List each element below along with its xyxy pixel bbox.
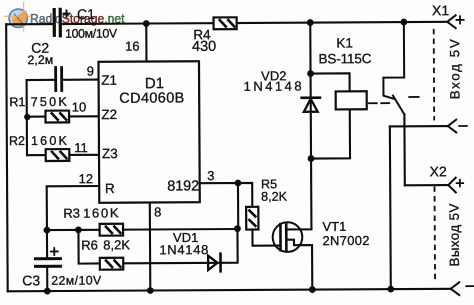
connector X1 plus terminal — [447, 15, 463, 28]
transistor VT1 2N7002 — [273, 222, 303, 252]
svg-text:R: R — [105, 181, 115, 196]
diode VD2 — [302, 98, 320, 112]
node pin16/top — [143, 20, 150, 27]
svg-text:11: 11 — [74, 140, 88, 155]
connector X1 dashed boundary — [433, 29, 436, 120]
node coil bottom/drain — [308, 155, 315, 162]
resistor R4 — [214, 17, 237, 29]
relay mechanical link dashes — [369, 97, 419, 103]
wire drain — [286, 159, 311, 230]
svg-text:Z2: Z2 — [101, 107, 117, 122]
svg-text:160K: 160K — [83, 205, 119, 220]
svg-text:BS-115C: BS-115C — [318, 51, 371, 66]
wire R6 branch — [78, 230, 99, 264]
connector X2 minus terminal — [451, 282, 474, 295]
wire pin12 — [47, 186, 100, 230]
wire C2 row / pin9 — [27, 79, 55, 81]
wire pin8 — [149, 203, 152, 291]
svg-text:2N7002: 2N7002 — [322, 233, 369, 248]
resistor R1 — [45, 111, 69, 123]
resistor R2 — [46, 149, 70, 161]
svg-text:R6: R6 — [81, 238, 98, 253]
svg-text:Выход 5V: Выход 5V — [447, 203, 462, 266]
wire VD2 branch vertical — [309, 23, 312, 96]
svg-text:K1: K1 — [336, 36, 353, 51]
svg-text:430: 430 — [192, 39, 216, 55]
svg-text:R1: R1 — [9, 95, 25, 109]
svg-text:750K: 750K — [31, 95, 68, 109]
node R6 branch — [75, 226, 82, 233]
connector X1 minus terminal — [448, 120, 467, 133]
resistor R5 — [246, 207, 258, 230]
wire X1 minus row — [389, 126, 392, 289]
wire top rail — [6, 23, 53, 25]
wire pin16 — [145, 24, 147, 62]
capacitor C1 — [54, 9, 70, 36]
node VD2/top — [307, 19, 314, 26]
svg-text:100м/10V: 100м/10V — [65, 26, 118, 40]
svg-text:22м/10V: 22м/10V — [51, 273, 102, 287]
wire source — [287, 240, 313, 290]
wire relay blade to X2 — [403, 114, 406, 185]
node pin8 ground — [147, 287, 154, 294]
svg-text:C3: C3 — [22, 272, 40, 288]
relay K1 coil — [336, 91, 367, 109]
wire R3 row — [47, 229, 100, 231]
svg-text:X2: X2 — [430, 163, 447, 179]
diode VD1 — [208, 254, 221, 272]
svg-text:VT1: VT1 — [322, 219, 346, 234]
relay K1 contact — [383, 22, 404, 115]
node R1 junction — [24, 114, 30, 120]
wire R1 row / pin10 — [27, 116, 46, 118]
svg-text:C1: C1 — [77, 6, 95, 22]
wire oscillator vertical — [26, 80, 29, 155]
svg-text:8,2K: 8,2K — [261, 190, 288, 204]
wire C3 top — [46, 230, 48, 257]
node pin3/R5 — [235, 180, 242, 187]
wire relay coil bottom — [311, 109, 350, 158]
wire pin3 vertical — [237, 183, 239, 229]
wire R2 row / pin11 — [27, 154, 46, 156]
svg-text:R3: R3 — [63, 206, 80, 221]
wire left rail — [6, 24, 8, 291]
svg-text:8: 8 — [154, 204, 161, 219]
node pin12/C3 — [44, 227, 51, 234]
wire VD1 cathode up — [220, 229, 237, 263]
svg-text:16: 16 — [125, 39, 140, 54]
svg-text:12: 12 — [79, 171, 94, 186]
svg-text:3: 3 — [207, 168, 214, 183]
svg-text:2,2м: 2,2м — [27, 53, 53, 67]
wire X2 plus row — [405, 184, 448, 186]
capacitor C2 — [56, 68, 62, 91]
svg-text:8,2K: 8,2K — [103, 237, 130, 252]
svg-text:1N4148: 1N4148 — [159, 242, 208, 257]
wire R6 to VD1 — [123, 262, 219, 265]
capacitor C3 — [35, 248, 60, 266]
wire bottom rail — [8, 289, 451, 292]
svg-text:8192: 8192 — [167, 178, 199, 194]
node pin3/R3 — [234, 225, 241, 232]
IC D1 CD4060B — [98, 61, 199, 203]
svg-text:9: 9 — [87, 63, 94, 78]
wire relay coil top — [311, 73, 350, 91]
resistor R6 — [100, 258, 123, 270]
wire pin3 row — [200, 183, 253, 207]
svg-text:Z3: Z3 — [102, 146, 118, 161]
svg-text:CD4060B: CD4060B — [119, 90, 184, 106]
svg-text:Z1: Z1 — [101, 73, 117, 88]
connector X2 plus terminal — [448, 178, 463, 193]
connector X2 dashed boundary — [434, 186, 437, 279]
svg-text:160K: 160K — [31, 134, 68, 148]
node X1 minus ground — [387, 286, 394, 293]
svg-text:10: 10 — [72, 99, 87, 114]
watermark logo RadioStorage.net — [4, 2, 125, 32]
node switch/top — [400, 19, 407, 26]
wire C3 bottom — [46, 267, 48, 291]
node source ground — [309, 286, 316, 293]
node C3 ground — [44, 288, 51, 295]
resistor R3 — [100, 224, 123, 236]
wire R5 bottom to gate — [252, 229, 279, 245]
node coil top — [307, 70, 314, 77]
svg-text:R2: R2 — [9, 134, 25, 148]
svg-text:X1: X1 — [432, 2, 449, 18]
